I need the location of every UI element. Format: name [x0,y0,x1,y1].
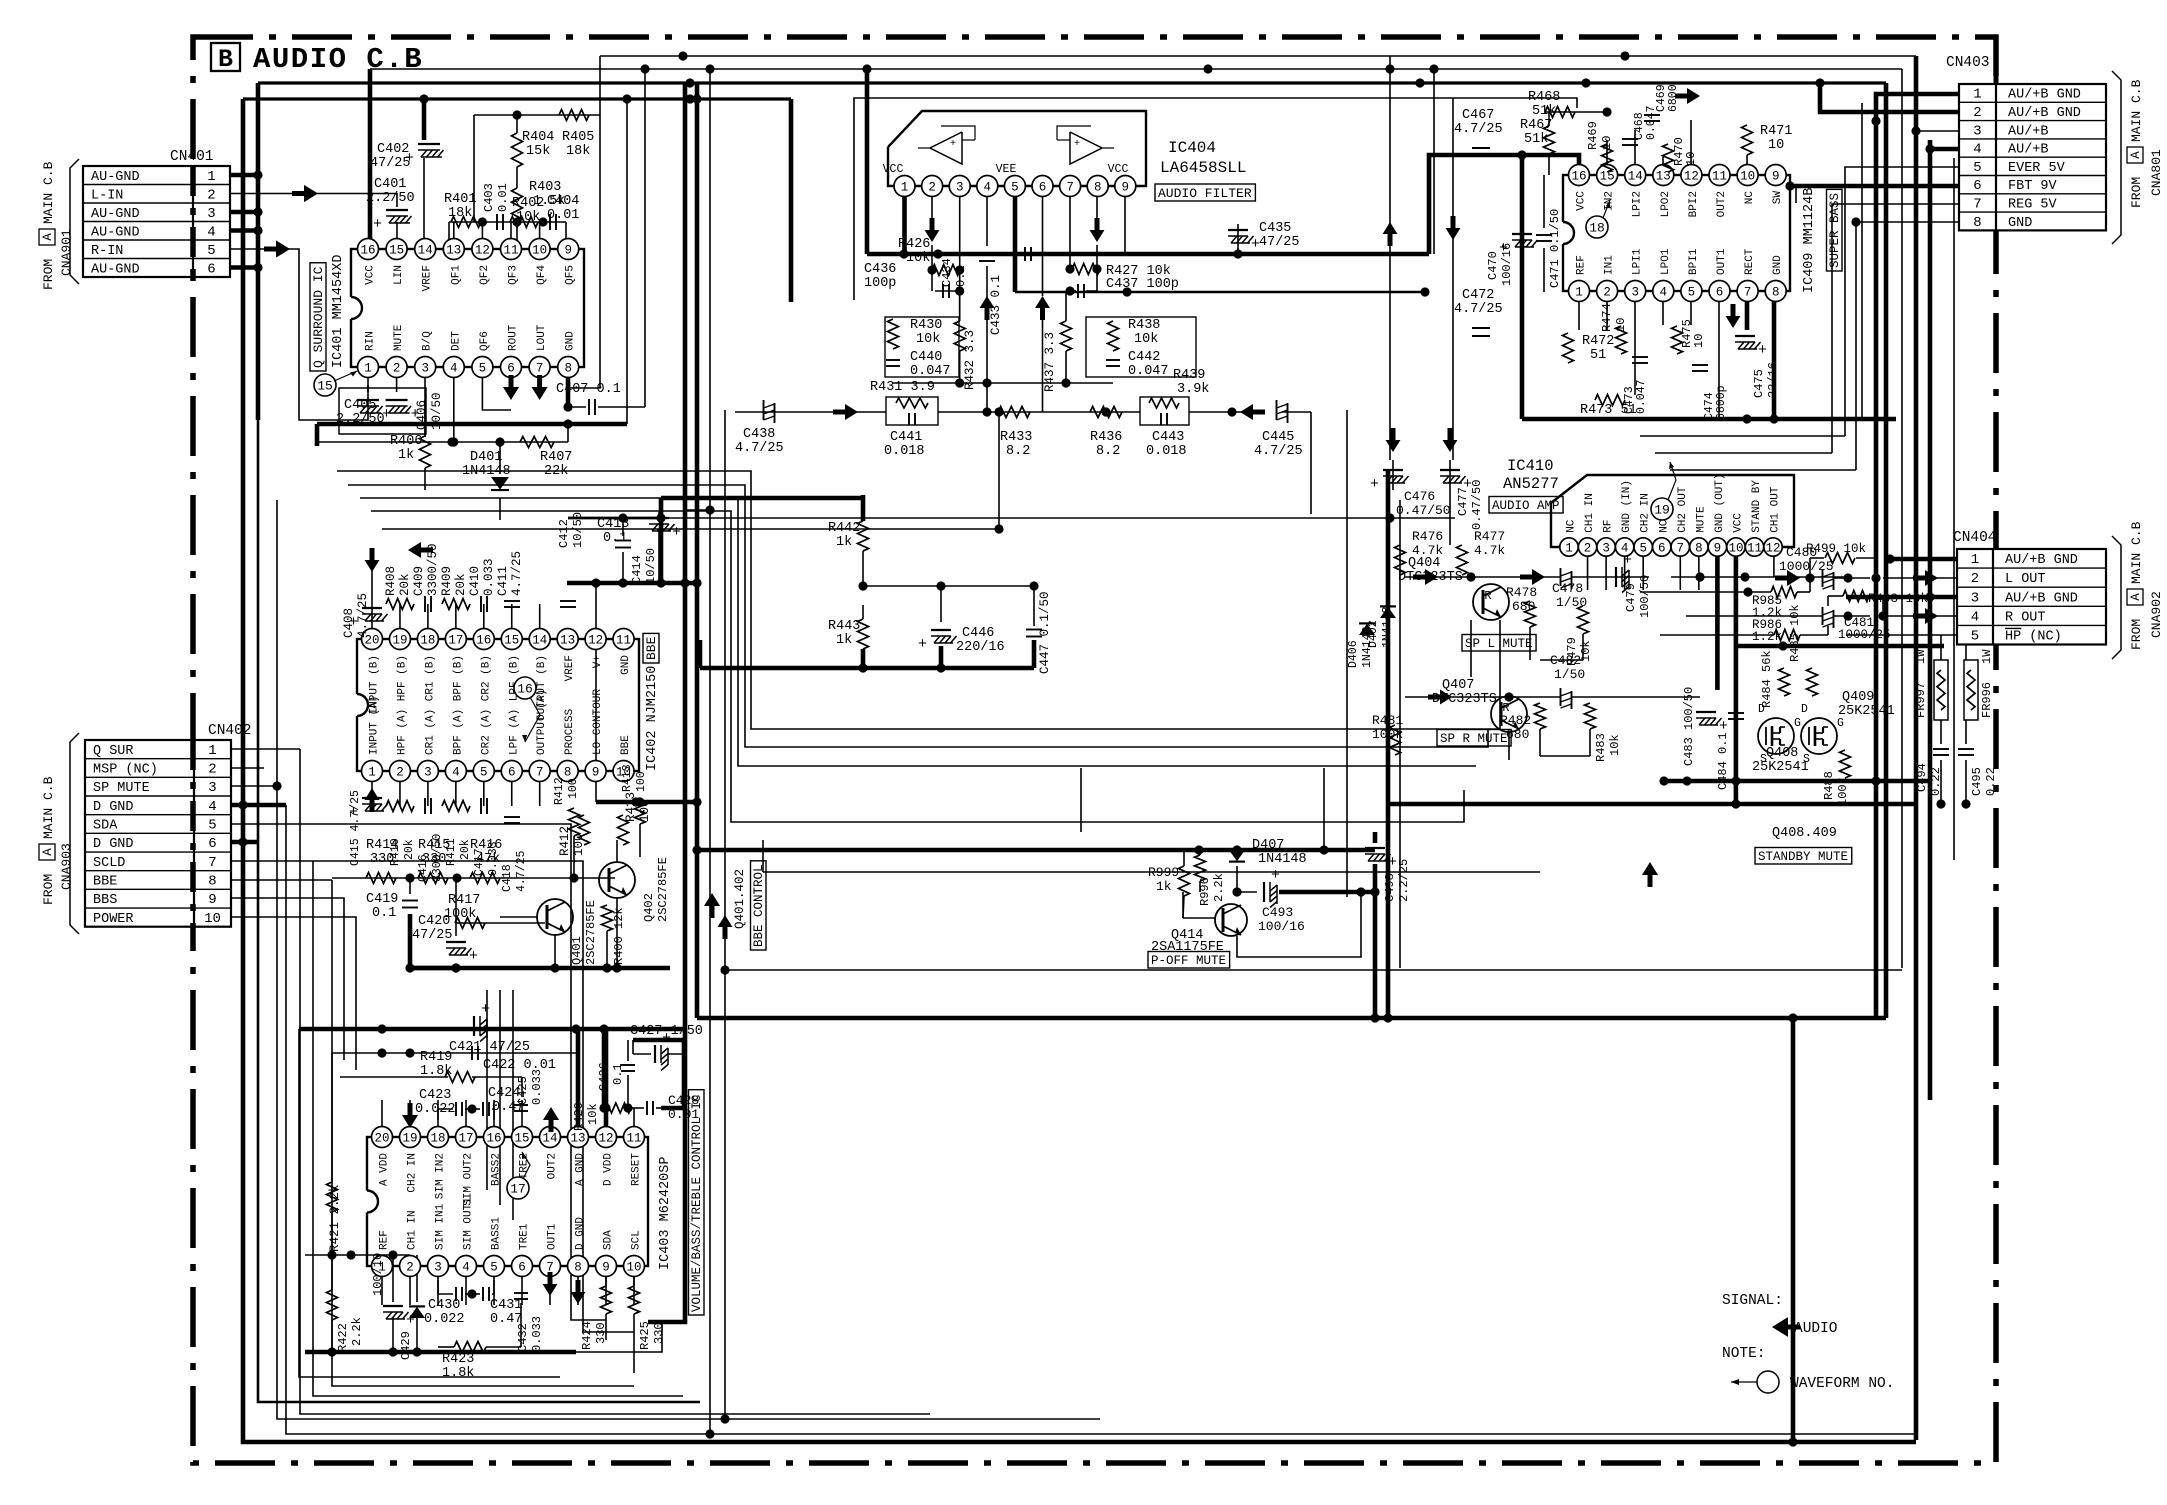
svg-text:R OUT: R OUT [2005,610,2046,625]
svg-text:22/16: 22/16 [1766,362,1780,398]
wire CN403 pin8 [1851,217,1959,470]
svg-text:10: 10 [532,244,547,258]
wire CN402 pin1 [231,748,300,750]
svg-text:VCC: VCC [883,163,904,176]
capacitor C474 [1692,365,1728,420]
svg-text:2: 2 [928,181,936,195]
svg-text:IC401 MM1454XD: IC401 MM1454XD [331,255,346,368]
svg-text:16: 16 [360,244,375,258]
svg-text:BPF (A): BPF (A) [452,709,464,755]
svg-text:1W: 1W [1980,649,1994,664]
wire v 1400 [1399,500,1401,968]
svg-text:10: 10 [1692,334,1706,348]
wire IC410 pin cols [1588,547,1718,590]
wire IC401 pin8 gnd [563,367,572,429]
svg-text:2.2/50: 2.2/50 [366,191,415,206]
waveform node 19 [1651,462,1676,520]
capacitor C483 [1682,687,1728,766]
wire IC401 pin7 out [539,367,541,380]
svg-text:D VDD: D VDD [603,1153,615,1186]
svg-text:C471 0.1/50: C471 0.1/50 [1548,209,1562,288]
label IC410 [1507,457,1554,475]
svg-text:6: 6 [1716,286,1724,300]
capacitor C435 [1228,221,1300,253]
capacitor C407 [556,382,621,415]
svg-text:C434: C434 [940,258,954,287]
wire CN402 pin9 BBS [231,898,344,1060]
svg-text:2: 2 [406,1261,414,1275]
svg-text:CN404: CN404 [1953,530,1997,546]
svg-text:R471: R471 [1760,124,1792,139]
svg-text:2.2k: 2.2k [1212,873,1226,902]
signal arrow rect [1726,304,1741,328]
legend WAVEFORM NO. [1731,1371,1894,1393]
svg-text:BASS1: BASS1 [491,1217,503,1250]
svg-text:0.1: 0.1 [372,906,396,921]
svg-text:8: 8 [564,362,572,376]
svg-text:17: 17 [458,1132,473,1146]
resistor R475 [1672,319,1707,354]
svg-text:LPO2: LPO2 [1660,191,1672,217]
svg-text:51k: 51k [1524,132,1548,147]
svg-text:C445: C445 [1262,430,1294,445]
svg-text:C438: C438 [743,427,775,442]
wire IC409 bottom rail [1522,414,1896,423]
resistor R986 [1752,618,1800,644]
svg-text:IC402 NJM2150: IC402 NJM2150 [645,666,660,771]
svg-text:2: 2 [207,187,215,203]
resistor R409 [440,566,470,610]
svg-text:5: 5 [207,243,215,259]
wire D407 col [1236,866,1238,892]
capacitor C413 [597,517,631,548]
resistor R436 [1090,407,1122,460]
bracket CN404 [2112,536,2121,659]
svg-text:8: 8 [1772,286,1780,300]
svg-text:R401: R401 [444,192,476,207]
svg-text:Q408.409: Q408.409 [1772,826,1837,841]
svg-text:BBE: BBE [644,636,659,660]
capacitor C412 [557,512,585,607]
wire C405 box [339,388,426,434]
signal arrow c483up [1642,862,1658,887]
svg-text:C440: C440 [910,350,942,365]
svg-text:V+: V+ [592,655,604,668]
wire IC402 pin20 col [371,570,373,639]
svg-text:R423: R423 [442,1352,474,1367]
svg-text:9: 9 [602,1261,610,1275]
wire C402 drop [422,99,427,249]
svg-text:R431 3.9: R431 3.9 [870,380,935,395]
resistor R426 [898,237,960,276]
wire R468 loop [1545,107,1612,175]
svg-text:2: 2 [396,766,404,780]
svg-text:100/10: 100/10 [371,1253,385,1296]
svg-text:C422 0.01: C422 0.01 [483,1058,556,1073]
capacitor C498 [1365,848,1411,902]
label FROM A MAIN C.B (CNA901) [39,161,74,290]
svg-text:B: B [218,45,233,74]
capacitor C476 [1370,470,1451,518]
svg-text:Q407: Q407 [1442,678,1474,693]
capacitor C442 [1106,350,1169,379]
svg-text:FROM: FROM [41,874,56,905]
wire bus1 right corner [1914,56,1919,1440]
wire web L4 [371,511,1464,822]
svg-text:R417: R417 [448,893,480,908]
svg-text:HP (NC): HP (NC) [2005,629,2062,644]
connector CN403 [1946,55,2106,231]
wire C493 row [1232,887,1375,896]
resistor R481 [1372,713,1403,755]
svg-text:A: A [2129,593,2143,601]
svg-text:5: 5 [208,818,216,834]
svg-text:100: 100 [635,771,648,792]
wire CN402 pin4 [231,800,286,809]
svg-text:0.1: 0.1 [954,265,968,287]
capacitor C405 [336,398,391,427]
svg-text:14: 14 [418,244,433,258]
svg-text:R436: R436 [1090,430,1122,445]
svg-text:0.47/50: 0.47/50 [1470,480,1484,530]
wire IC403 bot cols [382,1266,634,1305]
svg-text:3: 3 [1602,542,1610,556]
svg-text:5: 5 [479,362,487,376]
resistor R472 [1563,333,1615,363]
svg-text:5: 5 [1639,542,1647,556]
svg-text:C436: C436 [864,262,896,277]
svg-text:RF: RF [1603,520,1615,533]
svg-text:QF4: QF4 [536,265,548,285]
transistor Q414 [1151,904,1247,955]
wire bottom rail 1352 [305,1347,576,1356]
capacitor C425 [514,1069,544,1111]
svg-text:20k: 20k [454,573,468,596]
wire mid h 968 [720,965,1902,974]
svg-text:AU-GND: AU-GND [91,207,140,222]
svg-text:4.7/25: 4.7/25 [515,850,528,892]
svg-text:4.7/25: 4.7/25 [1254,444,1303,459]
resistor R438 [1086,317,1196,377]
svg-text:3: 3 [1631,286,1639,300]
wire CN402 pin8 BBE [231,879,332,881]
svg-text:C401: C401 [374,177,406,192]
svg-text:10/50: 10/50 [644,548,658,584]
svg-text:Q401.402: Q401.402 [733,869,747,929]
capacitor C475 [1735,336,1780,398]
svg-text:REG 5V: REG 5V [2008,197,2058,212]
legend NOTE: [1722,1346,1766,1362]
wire IC409 bottom cols [1579,291,1774,419]
svg-text:IC403 M62420SP: IC403 M62420SP [658,1157,673,1270]
svg-text:2SA1175FE: 2SA1175FE [1151,940,1224,955]
svg-text:LA6458SLL: LA6458SLL [1160,159,1246,177]
border dash-dot over CN401 divider [190,166,196,277]
svg-text:5: 5 [1688,286,1696,300]
svg-text:CNA903: CNA903 [59,843,74,890]
svg-text:4: 4 [1973,142,1981,158]
svg-text:BBS: BBS [93,893,117,908]
svg-text:0.033: 0.033 [530,1069,544,1105]
svg-text:1000/25: 1000/25 [1838,628,1891,642]
svg-text:AU/+B GND: AU/+B GND [2005,553,2078,568]
svg-text:C483 100/50: C483 100/50 [1682,687,1696,766]
resistor R414 [366,838,398,884]
wire v1081 [1080,768,1082,832]
signal arrow BBE in [408,542,433,558]
wire CN404 pin5 wire [1846,634,1957,636]
resistor R473 [1580,395,1637,419]
resistor R498 [1828,591,1928,621]
border dash-dot over CN402 divider [190,740,196,927]
svg-text:R403: R403 [529,180,561,195]
svg-text:AU/+B: AU/+B [2008,124,2049,139]
resistor R417 [444,893,485,929]
wire CN402 pin10 POWER [231,917,356,1070]
capacitor C446 [918,626,1005,655]
svg-text:R473 51: R473 51 [1580,403,1637,418]
wire IC403 rail 1029 [299,1024,686,1033]
resistor R413 [621,764,648,824]
wire mid h 1016 (thick) [697,1013,1886,1022]
wire bus2 right corner [1901,69,1903,968]
signal arrow q404 [1413,569,1545,585]
resistor R470 [1663,137,1699,172]
svg-text:20k: 20k [403,839,416,860]
wire R423 row [438,1303,521,1347]
svg-text:FR997: FR997 [1914,682,1928,718]
svg-text:D401: D401 [470,450,502,465]
resistor R405 [559,110,594,160]
signal arrow c14u [543,1107,559,1132]
svg-text:LPI2: LPI2 [1632,191,1644,217]
svg-text:FROM: FROM [2129,177,2144,208]
transistor Q402 [599,857,670,922]
svg-text:QF6: QF6 [479,331,491,351]
capacitor C467 [1454,108,1503,156]
svg-text:14: 14 [532,634,547,648]
svg-text:10: 10 [1600,136,1614,150]
wire top bus 2 [370,64,1902,249]
svg-text:+: + [1074,139,1080,150]
resistor R484 [1760,650,1790,708]
wire y1255 row [305,1250,410,1259]
svg-text:MAIN C.B: MAIN C.B [2129,79,2144,142]
svg-text:CH1 IN: CH1 IN [1584,493,1596,533]
svg-text:C421 47/25: C421 47/25 [449,1040,530,1055]
wire C413 rail [568,513,1455,522]
svg-text:1: 1 [901,181,909,195]
wire bus3 right corner [1884,83,1889,1018]
svg-text:15: 15 [514,1132,529,1146]
capacitor C417 [473,798,500,876]
svg-text:1: 1 [1565,542,1573,556]
svg-text:AUDIO AMP: AUDIO AMP [1492,499,1560,513]
svg-text:R498 10k: R498 10k [1868,592,1928,606]
resistor R412 [558,815,590,856]
connector CN404 [1953,530,2106,645]
svg-text:VEE: VEE [996,163,1017,176]
svg-text:+: + [1370,476,1379,493]
wire mid v 627 [487,99,627,1220]
svg-text:4.7/25: 4.7/25 [1454,302,1503,317]
svg-text:AUDIO C.B: AUDIO C.B [253,43,423,76]
wire web L2 [348,485,1488,747]
svg-text:9: 9 [1714,542,1722,556]
svg-text:13: 13 [446,244,461,258]
capacitor C416 [417,798,444,882]
svg-text:R414: R414 [366,838,398,853]
capacitor C433 [979,255,1003,335]
label IC402 NJM2150 [645,666,660,771]
wire C426 col [623,1040,632,1113]
svg-text:A: A [41,848,55,856]
wire CN402 pin2 [231,767,264,769]
resistor R415 [418,838,450,884]
svg-text:R420: R420 [572,1102,586,1131]
svg-text:11: 11 [503,244,518,258]
capacitor C436 [864,262,949,298]
wire h510 [684,509,710,511]
svg-text:9: 9 [1122,181,1130,195]
capacitor C432 [514,1293,544,1352]
svg-text:MAIN C.B: MAIN C.B [41,776,56,839]
svg-text:C479: C479 [1624,583,1638,612]
bracket CN403 [2112,71,2121,244]
svg-text:47/25: 47/25 [1259,235,1300,250]
wire web L3 [360,498,1476,766]
wire IC403 loop A drop [299,1029,560,1377]
signal arrow cn404-4 [1913,608,1938,624]
svg-text:CH2 IN: CH2 IN [407,1153,419,1193]
svg-text:+: + [1758,342,1767,359]
wire CN403 pin3 [1911,126,1959,135]
svg-text:AU/+B GND: AU/+B GND [2008,88,2081,103]
svg-text:P-OFF MUTE: P-OFF MUTE [1151,954,1226,968]
svg-text:MUTE: MUTE [1695,506,1707,533]
svg-text:R412: R412 [553,777,566,805]
capacitor C494 [1915,749,1949,796]
svg-text:0.022: 0.022 [424,1312,465,1327]
svg-text:6: 6 [1039,181,1047,195]
capacitor C430 [424,1287,465,1327]
svg-text:IC409 MM1124B: IC409 MM1124B [1802,188,1817,293]
svg-text:CH2 IN: CH2 IN [1640,493,1652,533]
label AUDIO FILTER (boxed) [1155,184,1255,201]
svg-text:C411: C411 [496,566,510,596]
wire IC402 bottom cols [372,771,540,806]
wire vee rail y292 [1015,287,1430,296]
wire left v 300 [300,749,930,1414]
svg-text:QF3: QF3 [508,265,520,285]
capacitor C424 [483,1086,524,1116]
svg-text:C495: C495 [1970,767,1984,796]
wire IC409 h 446 [1655,452,1832,454]
waveform node 18 [1586,200,1610,238]
svg-text:0.018: 0.018 [884,444,925,459]
svg-text:9: 9 [1772,170,1780,184]
svg-text:SP L MUTE: SP L MUTE [1465,637,1533,651]
svg-text:FBT 9V: FBT 9V [2008,179,2058,194]
svg-text:4.7k: 4.7k [1474,543,1505,558]
svg-text:1/50: 1/50 [1556,595,1587,610]
svg-text:FROM: FROM [41,259,56,290]
svg-text:220/16: 220/16 [956,640,1005,655]
wire IC410 pin10 thick [1731,547,1740,809]
resistor R469 [1586,121,1614,172]
wire CN401 bus [256,83,261,420]
wire left v 286 [286,805,1916,1434]
svg-text:GND: GND [2008,216,2032,231]
wire CN404 pin1 wire [1885,554,1957,563]
svg-text:OUT2: OUT2 [547,1153,559,1179]
filter IC409 body (MM1124B) [1552,165,1790,302]
wire v604 thick [602,1029,607,1108]
wire mid v 725 [720,410,729,1424]
svg-text:2: 2 [393,362,401,376]
svg-text:C407 0.1: C407 0.1 [556,382,621,397]
svg-text:12: 12 [588,634,603,648]
svg-text:1: 1 [1971,552,1979,568]
svg-text:1.2k: 1.2k [1752,630,1782,644]
capacitor C414 [630,518,681,584]
svg-text:0.033: 0.033 [530,1316,544,1352]
svg-text:C432: C432 [516,1323,530,1352]
svg-text:R472: R472 [1582,334,1614,349]
svg-text:R408: R408 [384,566,398,596]
diode D401 [462,450,511,490]
wire CN404 pin2 wire [1786,573,1957,582]
svg-text:MAIN C.B: MAIN C.B [2129,521,2144,584]
resistor R400 [602,905,627,965]
mosfet Q409 [1801,690,1895,766]
wire y802 rail [596,797,697,806]
wire CN403 pin7 [1832,204,1959,453]
svg-text:11: 11 [1747,542,1762,556]
svg-text:OUT1: OUT1 [547,1223,559,1250]
svg-text:POWER: POWER [93,912,134,927]
svg-text:QF1: QF1 [450,265,462,285]
wire CN403 pin5 [1845,167,1959,436]
op-amp IC402 body (NJM2150 BBE) [346,629,639,782]
wire C420 col [455,878,457,936]
diode D406 [1347,623,1375,668]
signal arrow c476 [1383,222,1401,452]
wire R999 col [1183,850,1184,918]
svg-text:PROCESS: PROCESS [564,708,576,755]
svg-text:1k: 1k [398,448,414,463]
wire C414 col [658,512,660,583]
svg-text:BBE: BBE [93,875,117,890]
svg-text:R468: R468 [1528,90,1560,105]
capacitor C422 [472,1046,556,1073]
svg-text:3: 3 [421,362,429,376]
svg-text:CR1 (A): CR1 (A) [424,709,436,755]
capacitor C403 [482,183,510,230]
resistor R479 [1565,606,1593,666]
wire CN403 pin4 [1925,144,1959,153]
svg-text:MAIN C.B: MAIN C.B [41,161,56,224]
capacitor C495 [1958,749,1998,796]
svg-text:100: 100 [572,833,586,856]
wire C435 col [1237,224,1239,254]
bracket CN401 [70,159,79,284]
svg-text:4: 4 [1971,609,1979,625]
svg-text:C442: C442 [1128,350,1160,365]
svg-text:+: + [405,150,414,167]
svg-text:8: 8 [1695,542,1703,556]
svg-text:C482: C482 [1550,653,1581,668]
